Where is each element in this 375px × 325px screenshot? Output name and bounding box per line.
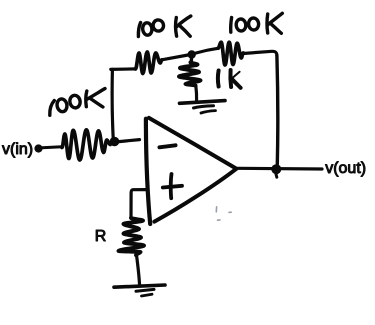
svg-text:v(out): v(out) <box>325 160 366 177</box>
svg-text:R: R <box>95 228 107 245</box>
svg-text:v(in): v(in) <box>2 141 33 158</box>
